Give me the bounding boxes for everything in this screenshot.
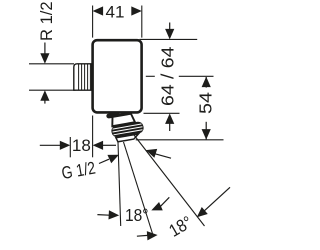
left 18 deg: left arrow (points right at ray A) [108,210,119,220]
dimension 64/64 lower arrow (up) [165,113,174,124]
dimension R 1/2 extension line bottom [29,89,76,91]
dimension 54 top extension line (from mid dash) [179,75,214,77]
outlet mouth arrow (points up-left at ray C) [144,146,157,158]
G 1/2 leader line [99,159,109,163]
svg-text:18°: 18° [125,205,149,225]
svg-text:54: 54 [196,92,216,114]
dimension 64/64 bottom extension line [144,112,180,114]
dimension 18 left arrow (points right) [60,141,71,150]
dimension 64/64 top extension line [140,38,198,40]
thread hatch lines [79,64,91,89]
outlet collar (tilted cylinder) [112,113,135,126]
dimension 64/64 mid reference dash [146,75,155,77]
dimension 41 extension line left [92,6,94,38]
outlet tip (hose connection G 1/2) [116,134,138,142]
right 18 deg: left tail [137,234,148,237]
dimension 54 line [205,77,207,139]
spray ray B (middle, 18 deg) [124,142,154,237]
collar top edge (thick) [112,113,132,116]
left 18 deg: right arrow (points left-down at ray B) [149,202,162,215]
dimension 41 right arrow [131,6,142,15]
dimension 54 upper arrow (up) [202,77,211,88]
right 18 deg: right arrow (points down-left at ray C) [194,207,208,221]
dimension 64/64 upper arrow (down) [169,23,171,32]
dimension 54 bottom extension line (from outlet tip) [136,139,224,141]
knurled ring (dark band) [111,121,145,138]
G 1/2 leader arrow [107,151,120,164]
dimension 18 right extension line [92,116,94,158]
svg-text:64 / 64: 64 / 64 [158,46,178,106]
left 18 deg: left tail [97,214,109,217]
spray ray A (left, near vertical) [118,142,121,226]
dimension 18 right arrow (points left) [93,141,104,150]
dimension 18 left extension line [69,137,71,157]
svg-text:R 1/2: R 1/2 [38,1,56,41]
right 18 deg: left arrow (points right at ray B) [147,230,158,240]
spray ray C (right, 36 deg) [134,135,205,226]
svg-text:41: 41 [106,3,125,21]
dimension 18 (depth) left tail [40,144,61,146]
wall plate (front body) [93,40,142,112]
dimension 54 lower arrow (down) [202,129,211,140]
svg-text:18: 18 [72,137,91,155]
outlet nub under plate [106,112,120,119]
dimension 41 left arrow [93,6,104,15]
dimension R 1/2 upper arrow (down) [44,43,46,55]
dimension 41 extension line right [141,6,143,38]
dimension R 1/2 extension line top [29,63,74,65]
dimension R 1/2 lower arrow (up) [40,90,49,101]
thread pipe R 1/2 (hatched) [74,64,92,90]
